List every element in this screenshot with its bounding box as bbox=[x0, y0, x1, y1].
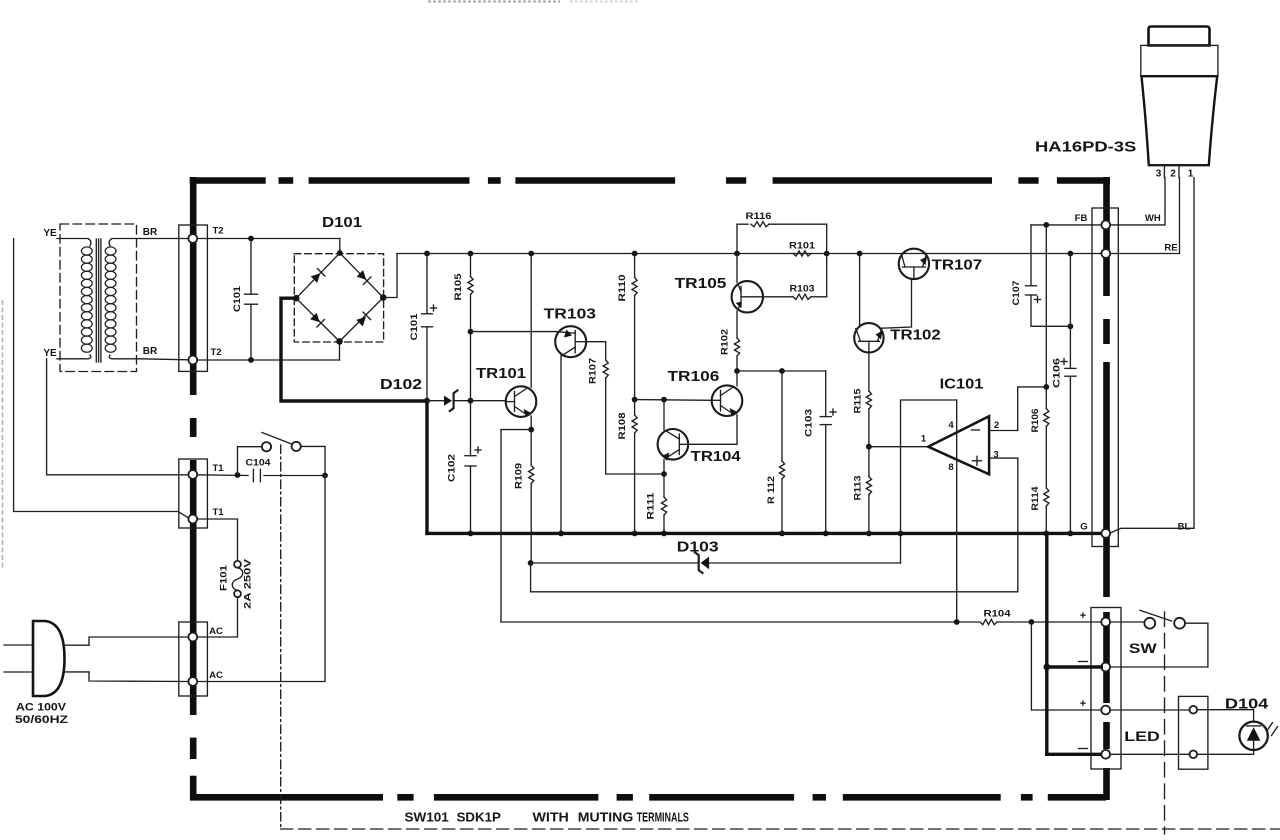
muting switch SW101 bbox=[1110, 621, 1144, 623]
wire LED plus to D104 bbox=[1110, 709, 1189, 711]
svg-text:R103: R103 bbox=[790, 284, 815, 295]
wire to LED plus terminal bbox=[1031, 622, 1101, 710]
svg-text:SW101: SW101 bbox=[405, 811, 449, 825]
svg-text:4: 4 bbox=[948, 420, 954, 431]
svg-text:R107: R107 bbox=[588, 358, 599, 384]
svg-text:G: G bbox=[1080, 522, 1087, 533]
bridge node left bbox=[293, 295, 300, 302]
terminal T2 lower bbox=[188, 356, 197, 365]
resistor R111 bbox=[663, 474, 665, 497]
svg-text:3: 3 bbox=[993, 450, 998, 461]
wire node to TR103 base bbox=[471, 331, 557, 333]
svg-text:2: 2 bbox=[1170, 169, 1176, 180]
svg-text:TR101: TR101 bbox=[476, 366, 526, 382]
ground return drop (thick) bbox=[1045, 533, 1048, 754]
terminal RE bbox=[1101, 249, 1110, 258]
resistor R113 bbox=[868, 447, 870, 477]
wire TR105 collector to rail bbox=[736, 254, 738, 283]
wire T2 upper to bridge bbox=[197, 238, 340, 240]
terminal FB bbox=[1101, 221, 1110, 230]
junction R102 bottom bbox=[734, 368, 740, 374]
wire plug to AC upper terminal bbox=[64, 644, 89, 646]
terminal LED plus bbox=[1101, 706, 1110, 715]
wire BR upper to T2 terminal bbox=[140, 238, 188, 240]
svg-text:YE: YE bbox=[43, 348, 57, 359]
wire TR106 collector bbox=[736, 371, 738, 386]
svg-text:R111: R111 bbox=[646, 492, 657, 520]
resistor R116 bbox=[737, 224, 748, 253]
power switch S101 bbox=[262, 442, 271, 451]
transformer T101 dashed box bbox=[60, 224, 137, 372]
svg-text:C103: C103 bbox=[804, 409, 815, 437]
resistor R105 bbox=[470, 254, 472, 277]
svg-text:C106: C106 bbox=[1052, 358, 1063, 388]
page artifact left edge bbox=[2, 300, 4, 570]
transistor TR103 bbox=[555, 326, 586, 357]
svg-text:R101: R101 bbox=[789, 241, 816, 252]
svg-text:R104: R104 bbox=[984, 609, 1012, 620]
capacitor C102 bbox=[470, 401, 472, 456]
svg-text:BL: BL bbox=[1178, 522, 1191, 533]
wire SW minus (thick) bbox=[1047, 665, 1102, 668]
junction TR101 emitter bbox=[528, 427, 534, 433]
LED D104 connector box bbox=[1179, 696, 1208, 769]
LED light arrows bbox=[1267, 723, 1273, 732]
bridge rectifier D101 diamond bbox=[296, 253, 383, 341]
transformer T101 secondary winding bbox=[109, 239, 140, 247]
transistor TR101 bbox=[506, 386, 537, 417]
wire rectifier output (thick down to ground bus) bbox=[425, 401, 428, 534]
power switch S101 pole wire bbox=[238, 447, 262, 475]
wire fuse to AC upper terminal bbox=[197, 597, 237, 637]
svg-text:1: 1 bbox=[921, 434, 927, 445]
transistor TR107 bbox=[899, 249, 929, 279]
capacitor C103 bbox=[825, 371, 827, 417]
AC plug body bbox=[33, 621, 65, 696]
transistor TR104 bbox=[658, 429, 689, 460]
junction D102 left bbox=[424, 398, 430, 404]
junction R104 right bbox=[1029, 619, 1035, 625]
svg-text:2A 250V: 2A 250V bbox=[243, 558, 254, 609]
capacitor C101 ceramic bbox=[250, 239, 252, 295]
svg-text:SDK1P: SDK1P bbox=[457, 811, 501, 825]
bridge node right bbox=[380, 294, 387, 301]
svg-text:T1: T1 bbox=[212, 463, 224, 474]
svg-text:50/60HZ: 50/60HZ bbox=[15, 714, 68, 726]
svg-text:R115: R115 bbox=[853, 388, 864, 414]
dash-dot switch link line bbox=[280, 445, 282, 829]
wire junction down to AC lower terminal bbox=[197, 476, 325, 682]
wire main rail bbox=[397, 253, 1101, 255]
wire YE upper to T1 lower terminal bbox=[14, 239, 189, 518]
resistor R101 on rail bbox=[793, 251, 811, 256]
svg-text:R106: R106 bbox=[1030, 409, 1041, 433]
svg-text:TR104: TR104 bbox=[691, 449, 741, 465]
svg-text:BR: BR bbox=[143, 346, 158, 357]
wire TR101 emitter bbox=[530, 416, 532, 430]
PCB board outline left edge bbox=[190, 177, 197, 395]
PCB board outline right edge bbox=[1103, 177, 1110, 296]
terminal G bbox=[1101, 529, 1110, 538]
muting terminals dashed boundary bbox=[281, 828, 1280, 830]
svg-text:C107: C107 bbox=[1011, 281, 1022, 306]
transformer T101 primary winding bbox=[57, 239, 91, 247]
svg-text:TR107: TR107 bbox=[932, 258, 983, 274]
junction TR104 collector node bbox=[661, 397, 667, 403]
resistor R102 bbox=[736, 311, 738, 338]
svg-text:AC: AC bbox=[209, 670, 223, 681]
svg-text:SW: SW bbox=[1129, 641, 1157, 656]
transistor TR102 bbox=[854, 323, 883, 352]
svg-text:T2: T2 bbox=[210, 347, 221, 358]
resistor R112 bbox=[781, 371, 783, 461]
bridge diode bottom-right bbox=[356, 317, 366, 327]
bridge node top bbox=[337, 250, 343, 256]
bridge diode top-right bbox=[357, 270, 367, 280]
IC101 plus sign bbox=[973, 460, 982, 462]
wire WH pin 3 to FB bbox=[1110, 178, 1165, 225]
junction pin4 box ground bbox=[898, 531, 904, 537]
AC plug prong lower bbox=[4, 671, 33, 673]
fuse F101 bbox=[234, 561, 241, 568]
wire sense line down-left bbox=[500, 430, 502, 622]
svg-text:+: + bbox=[1080, 610, 1086, 622]
wire TR104 emitter bbox=[663, 460, 665, 475]
wire LED minus (thick) bbox=[1047, 753, 1102, 756]
transistor TR105 bbox=[732, 281, 763, 312]
wire emitter node left bbox=[501, 429, 531, 431]
junction IC101 pin1 node bbox=[866, 444, 872, 450]
svg-text:T2: T2 bbox=[212, 226, 223, 237]
terminal strip SW-LED box bbox=[1091, 608, 1121, 770]
capacitor C101 electrolytic bbox=[426, 254, 428, 314]
svg-text:R116: R116 bbox=[746, 211, 772, 222]
capacitor C106 bbox=[1069, 254, 1071, 369]
svg-text:YE: YE bbox=[43, 228, 57, 239]
svg-text:IC101: IC101 bbox=[940, 377, 984, 393]
junction C104 left bbox=[235, 472, 241, 478]
svg-text:R109: R109 bbox=[514, 463, 525, 489]
svg-text:C101: C101 bbox=[232, 285, 243, 312]
svg-text:TR106: TR106 bbox=[668, 369, 720, 385]
svg-text:HA16PD-3S: HA16PD-3S bbox=[1035, 139, 1136, 156]
svg-text:R108: R108 bbox=[617, 413, 628, 440]
resistor R109 bbox=[530, 430, 532, 466]
wire TR102 collector to TR107 bbox=[882, 279, 912, 329]
wire BR lower to T2 terminal bbox=[140, 359, 188, 360]
svg-text:D101: D101 bbox=[322, 215, 362, 231]
terminal LED minus bbox=[1101, 750, 1110, 759]
svg-text:F101: F101 bbox=[219, 564, 230, 591]
wire FB net bbox=[1031, 224, 1101, 226]
wire TR103 collector to ground bus bbox=[560, 356, 562, 534]
IC101 pin 4-8 line bbox=[956, 400, 958, 622]
ground bus (thick) bbox=[427, 532, 1101, 535]
wire R116 right leg bbox=[826, 224, 828, 297]
capacitor C104 bbox=[252, 469, 254, 482]
resistor R104 bbox=[980, 619, 997, 624]
svg-text:R105: R105 bbox=[453, 273, 464, 301]
connector HA16PD-3S body bbox=[1149, 27, 1210, 46]
svg-text:C101: C101 bbox=[409, 313, 420, 341]
junction C102 ground bbox=[468, 531, 474, 537]
AC plug prong upper bbox=[4, 644, 33, 646]
junction D102 right bbox=[468, 398, 474, 404]
wire R104 line bbox=[501, 621, 979, 623]
wire BL pin 1 to G terminal bbox=[1111, 178, 1195, 533]
svg-text:D103: D103 bbox=[677, 540, 719, 556]
svg-text:T1: T1 bbox=[212, 507, 224, 518]
svg-text:LED: LED bbox=[1124, 729, 1160, 744]
wire switch return loop bbox=[1110, 623, 1208, 667]
wire TR104 collector bbox=[663, 400, 665, 430]
op-amp IC101 bbox=[928, 416, 989, 474]
svg-text:FB: FB bbox=[1075, 213, 1088, 224]
svg-text:TERMINALS: TERMINALS bbox=[637, 811, 689, 825]
wire RE pin 2 to rail terminal bbox=[1110, 178, 1179, 254]
svg-text:D102: D102 bbox=[380, 377, 422, 393]
svg-text:1: 1 bbox=[1188, 169, 1194, 180]
junction R110 R108 bbox=[632, 397, 638, 403]
svg-text:R 112: R 112 bbox=[766, 476, 777, 504]
terminal T1 upper bbox=[188, 470, 197, 479]
svg-text:R110: R110 bbox=[617, 275, 628, 302]
wire switch to AC lower net bbox=[301, 446, 325, 475]
resistor R110 bbox=[634, 254, 636, 278]
svg-text:AC 100V: AC 100V bbox=[16, 702, 67, 714]
transistor TR106 bbox=[712, 385, 743, 416]
wire node to TR101 base bbox=[471, 400, 506, 402]
junction pins4-8 to R104 line bbox=[954, 619, 960, 625]
svg-text:WH: WH bbox=[1145, 213, 1161, 224]
wire C104 to junction bbox=[264, 475, 325, 477]
wire bridge DC minus (thick) bbox=[281, 298, 427, 401]
terminal AC lower bbox=[188, 677, 197, 686]
wire R109 to D103 node bbox=[528, 560, 534, 566]
svg-text:C104: C104 bbox=[246, 458, 272, 469]
label minus SW bbox=[1079, 661, 1088, 663]
transformer T101 core bbox=[95, 239, 97, 362]
wire YE lower to T1 upper terminal bbox=[47, 359, 189, 475]
junction TR103 base node bbox=[468, 329, 474, 335]
svg-text:AC: AC bbox=[209, 626, 223, 637]
PCB board outline top edge bbox=[190, 177, 266, 184]
svg-text:MUTING: MUTING bbox=[578, 811, 634, 825]
IC101 minus sign bbox=[972, 429, 980, 431]
IC101 ground box pin4 bbox=[901, 400, 957, 563]
terminal AC upper bbox=[188, 633, 197, 642]
resistor R115 bbox=[868, 352, 870, 391]
wire D104 to LED minus bbox=[1197, 750, 1254, 754]
svg-text:R113: R113 bbox=[853, 476, 864, 501]
wire IC101 pin 3 bbox=[989, 458, 1018, 592]
terminal strip AC box bbox=[179, 622, 208, 696]
svg-text:TR103: TR103 bbox=[544, 307, 596, 323]
bridge node bottom bbox=[336, 338, 343, 345]
diode D103 zener bbox=[531, 562, 699, 564]
junction C104 right bbox=[322, 473, 328, 479]
PCB board outline bottom edge bbox=[190, 794, 383, 801]
connector pin separators bbox=[1163, 165, 1165, 177]
svg-text:C102: C102 bbox=[447, 454, 458, 482]
terminal strip T2 box bbox=[179, 225, 208, 371]
LED D104 bbox=[1197, 710, 1254, 722]
svg-text:TR105: TR105 bbox=[675, 276, 727, 292]
resistor R114 bbox=[1044, 488, 1049, 506]
svg-text:+: + bbox=[1080, 698, 1086, 710]
wire node to TR106 base bbox=[635, 399, 712, 402]
terminal SW plus bbox=[1101, 618, 1110, 627]
wire TR101 collector to rail bbox=[530, 254, 532, 388]
svg-text:3: 3 bbox=[1156, 169, 1162, 180]
bridge rectifier D101 dashed box bbox=[294, 254, 383, 342]
wire T1 lower to fuse bbox=[197, 519, 237, 561]
bridge diode bottom-left bbox=[310, 313, 320, 323]
wire T1 upper to C104 bbox=[197, 474, 248, 477]
resistor R107 bbox=[586, 342, 605, 360]
junction R112 top bbox=[779, 368, 785, 374]
terminal T2 upper bbox=[188, 234, 197, 243]
terminal T1 lower bbox=[188, 515, 197, 524]
wire TR106 emitter to TR104 base bbox=[679, 415, 737, 445]
svg-text:WITH: WITH bbox=[533, 811, 569, 825]
terminal SW minus bbox=[1101, 663, 1110, 672]
muting link dashed line bbox=[1164, 612, 1166, 834]
diode D102 zener bbox=[427, 400, 444, 402]
terminal strip FB-RE-G box bbox=[1092, 208, 1118, 547]
wire R107 to TR104 emitter node bbox=[606, 473, 664, 475]
junction FB net R106 bbox=[1043, 222, 1049, 228]
rail junction dots bbox=[424, 251, 430, 257]
wire IC101 pin 2 bbox=[989, 387, 1046, 431]
label minus LED bbox=[1079, 748, 1088, 750]
resistor R106 bbox=[1045, 225, 1047, 387]
bridge diode top-left bbox=[311, 273, 321, 283]
junction C107 bottom bbox=[1068, 323, 1074, 329]
svg-text:R114: R114 bbox=[1030, 486, 1041, 511]
svg-text:R102: R102 bbox=[720, 329, 731, 355]
wire to IC101 pin 1 bbox=[869, 446, 928, 448]
svg-text:RE: RE bbox=[1164, 243, 1177, 254]
page artifact top edge bbox=[428, 1, 560, 3]
junction SW minus bbox=[1043, 664, 1050, 671]
wire TR102 base from rail bbox=[859, 254, 861, 326]
svg-text:BR: BR bbox=[143, 227, 158, 238]
wire bridge DC plus to rail bbox=[383, 254, 397, 298]
wire R102 node to C103 bbox=[737, 370, 826, 372]
junction TR104 emitter bbox=[661, 471, 667, 477]
wire pin3 long sense line bbox=[531, 563, 1018, 592]
wire plug to AC lower terminal bbox=[64, 671, 89, 673]
svg-text:TR102: TR102 bbox=[890, 328, 941, 344]
wire T2 lower to bridge bbox=[197, 359, 339, 361]
resistor R108 bbox=[634, 400, 636, 415]
capacitor C107 bbox=[1030, 225, 1032, 286]
terminal strip T1 box bbox=[179, 459, 208, 528]
svg-text:2: 2 bbox=[994, 420, 999, 431]
resistor R103 bbox=[763, 296, 793, 298]
svg-text:8: 8 bbox=[948, 462, 953, 473]
